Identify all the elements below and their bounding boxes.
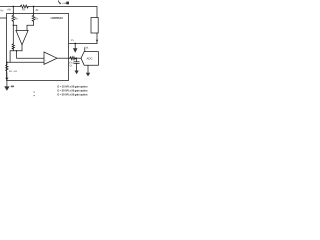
svg-text:+IN: +IN [7,8,11,11]
svg-text:VOUT: VOUT [69,63,74,65]
svg-text:ADC: ADC [87,57,93,61]
svg-text:+: + [45,60,47,62]
svg-text:LMP8640: LMP8640 [51,16,64,20]
svg-text:RG + RF: RG + RF [9,71,17,73]
svg-text:-IN: -IN [35,9,38,12]
svg-text:V+: V+ [0,8,4,12]
svg-text:VA: VA [86,46,90,49]
svg-text:V+: V+ [71,39,75,42]
svg-text:G = 20 V/V x 50 gain option: G = 20 V/V x 50 gain option [57,89,88,93]
svg-text:RG: RG [35,18,39,21]
svg-text:G = 10 V/V x 50 gain option: G = 10 V/V x 50 gain option [57,85,88,89]
svg-text:CF: CF [70,65,73,67]
svg-text:RS: RS [22,9,26,12]
svg-text:G = 50 V/V x 50 gain option: G = 50 V/V x 50 gain option [57,93,88,97]
svg-text:RG: RG [15,18,19,21]
svg-text:LOAD: LOAD [62,2,68,5]
